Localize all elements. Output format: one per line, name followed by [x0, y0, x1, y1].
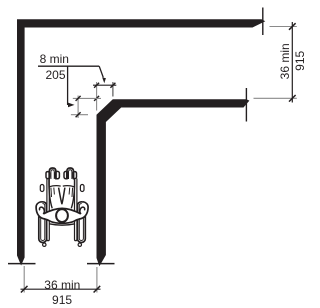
svg-text:915: 915 — [52, 293, 72, 307]
svg-text:915: 915 — [293, 50, 307, 70]
svg-text:205: 205 — [45, 68, 65, 82]
svg-text:8 min: 8 min — [40, 52, 69, 66]
svg-text:36 min: 36 min — [278, 43, 292, 79]
svg-text:36 min: 36 min — [44, 278, 80, 292]
